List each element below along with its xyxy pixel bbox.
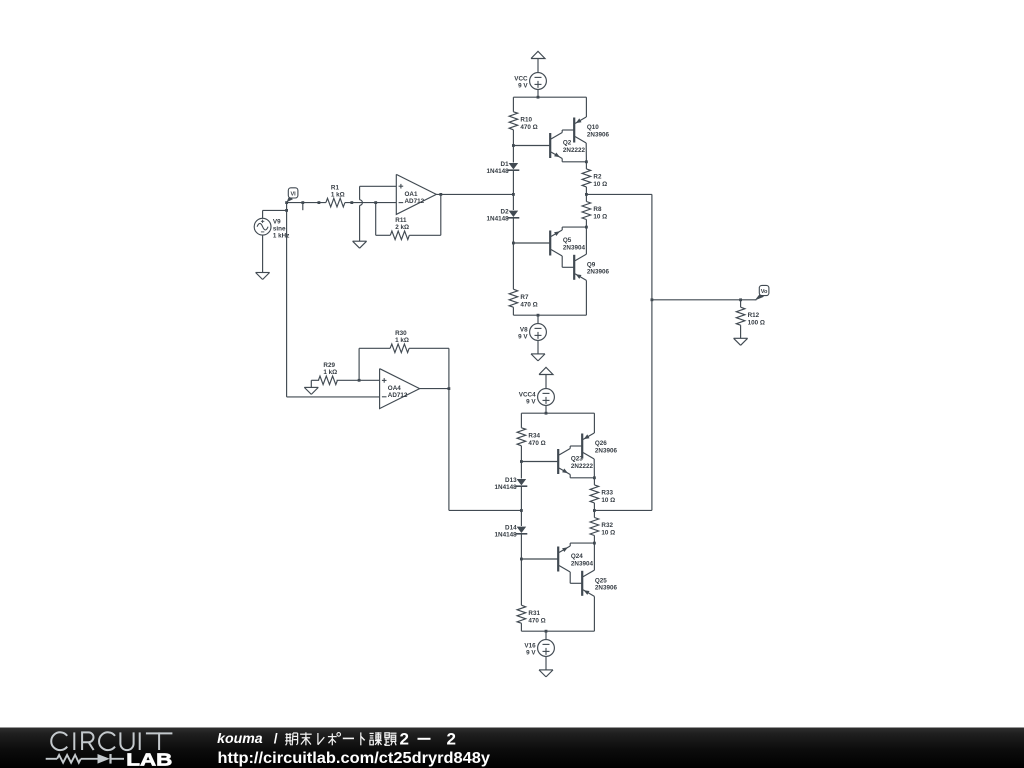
svg-text:R33: R33: [601, 490, 613, 497]
svg-text:10 Ω: 10 Ω: [601, 530, 615, 537]
svg-text:2N2222: 2N2222: [563, 147, 586, 154]
svg-text:100 Ω: 100 Ω: [748, 319, 765, 326]
svg-text:2N3904: 2N3904: [563, 244, 586, 251]
svg-text:http://circuitlab.com/ct25dryr: http://circuitlab.com/ct25dryrd848y: [218, 750, 491, 767]
svg-text:10 Ω: 10 Ω: [593, 214, 607, 221]
svg-text:1 kΩ: 1 kΩ: [395, 337, 409, 344]
svg-text:9 V: 9 V: [526, 399, 536, 406]
svg-text:2N3906: 2N3906: [587, 131, 610, 138]
svg-text:AD712: AD712: [405, 198, 425, 205]
svg-text:R31: R31: [528, 610, 540, 617]
svg-text:9 V: 9 V: [518, 83, 528, 90]
svg-text:1 kΩ: 1 kΩ: [323, 369, 337, 376]
svg-text:V16: V16: [524, 642, 536, 649]
svg-text:R7: R7: [520, 294, 529, 301]
svg-text:V9: V9: [273, 219, 281, 226]
svg-text:AD712: AD712: [388, 392, 408, 399]
svg-text:OA1: OA1: [405, 191, 418, 198]
svg-text:2N3904: 2N3904: [571, 560, 594, 567]
svg-text:R12: R12: [748, 312, 760, 319]
svg-text:R34: R34: [528, 432, 540, 439]
svg-text:1N4148: 1N4148: [495, 532, 518, 539]
svg-text:D13: D13: [505, 477, 517, 484]
svg-text:9 V: 9 V: [518, 334, 528, 341]
svg-text:VCC4: VCC4: [519, 391, 536, 398]
svg-text:2: 2: [447, 730, 456, 749]
svg-text:/: /: [274, 730, 278, 746]
svg-text:R8: R8: [593, 206, 602, 213]
svg-text:Q25: Q25: [595, 577, 607, 584]
svg-text:OA4: OA4: [388, 385, 401, 392]
svg-text:D14: D14: [505, 525, 517, 532]
svg-text:LAB: LAB: [126, 750, 172, 768]
svg-text:2 kΩ: 2 kΩ: [395, 224, 409, 231]
svg-text:R2: R2: [593, 174, 602, 181]
svg-text:D1: D1: [501, 161, 510, 168]
svg-text:sine: sine: [273, 226, 286, 233]
svg-text:470 Ω: 470 Ω: [528, 617, 545, 624]
svg-text:Q10: Q10: [587, 124, 599, 131]
svg-text:2N2222: 2N2222: [571, 463, 594, 470]
svg-text:1 kΩ: 1 kΩ: [331, 191, 345, 198]
svg-text:1N4148: 1N4148: [495, 484, 518, 491]
svg-text:Q26: Q26: [595, 440, 607, 447]
svg-text:Q5: Q5: [563, 237, 572, 244]
svg-text:Vo: Vo: [761, 289, 768, 295]
svg-text:2N3906: 2N3906: [587, 269, 610, 276]
svg-text:470 Ω: 470 Ω: [520, 301, 537, 308]
svg-text:10 Ω: 10 Ω: [593, 181, 607, 188]
svg-text:470 Ω: 470 Ω: [528, 440, 545, 447]
svg-text:2: 2: [400, 730, 409, 749]
svg-text:R10: R10: [520, 117, 532, 124]
svg-text:V8: V8: [520, 326, 528, 333]
svg-text:470 Ω: 470 Ω: [520, 124, 537, 131]
svg-text:Q24: Q24: [571, 553, 583, 560]
svg-text:2N3906: 2N3906: [595, 447, 618, 454]
svg-text:9 V: 9 V: [526, 650, 536, 657]
svg-text:1N4148: 1N4148: [487, 168, 510, 175]
svg-text:R32: R32: [601, 522, 613, 529]
svg-text:D2: D2: [501, 209, 510, 216]
svg-text:Q2: Q2: [563, 140, 572, 147]
svg-text:VI: VI: [290, 191, 296, 197]
svg-text:1 kHz: 1 kHz: [273, 233, 289, 240]
svg-text:10 Ω: 10 Ω: [601, 497, 615, 504]
svg-text:VCC: VCC: [514, 75, 528, 82]
svg-text:Q9: Q9: [587, 261, 596, 268]
svg-text:kouma: kouma: [217, 730, 263, 746]
svg-text:1N4148: 1N4148: [487, 216, 510, 223]
svg-text:2N3906: 2N3906: [595, 585, 618, 592]
